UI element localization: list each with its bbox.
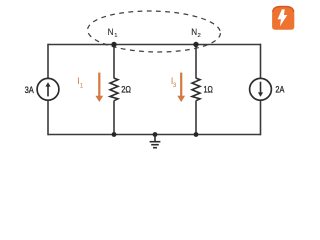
bottom junction dot right bbox=[194, 132, 199, 137]
svg-text:1: 1 bbox=[114, 33, 117, 39]
label I3 bbox=[171, 76, 177, 89]
current arrow I1 (orange) bbox=[95, 73, 103, 102]
svg-text:2: 2 bbox=[198, 33, 201, 39]
resistor R1 2ohm bbox=[110, 78, 118, 101]
app icon (orange badge with lightning bolt) top-right bbox=[272, 6, 294, 30]
node N1 dot bbox=[111, 42, 116, 47]
resistor R2 1ohm bbox=[192, 78, 200, 101]
wire left branch lower bbox=[47, 100, 49, 135]
bottom junction dot left bbox=[112, 132, 117, 137]
svg-text:N: N bbox=[108, 27, 114, 37]
svg-text:3: 3 bbox=[173, 82, 177, 89]
wire right branch upper bbox=[260, 44, 262, 79]
wire bottom horizontal bbox=[48, 134, 261, 136]
current source 2A (right) bbox=[250, 78, 272, 100]
node N2 dot bbox=[193, 42, 198, 47]
wire right branch lower bbox=[260, 100, 262, 135]
svg-text:1: 1 bbox=[80, 82, 84, 89]
wire branch N2 lower bbox=[195, 101, 197, 135]
supernode dashed ellipse around N1 and N2 bbox=[87, 9, 221, 53]
svg-text:N: N bbox=[191, 27, 197, 37]
wire branch N1 lower bbox=[113, 101, 115, 135]
svg-text:1Ω: 1Ω bbox=[204, 84, 214, 94]
ground bbox=[150, 135, 161, 148]
wire left branch upper bbox=[47, 44, 49, 79]
wire top horizontal bbox=[48, 44, 261, 46]
svg-text:2Ω: 2Ω bbox=[121, 84, 131, 94]
label I1 bbox=[77, 76, 83, 89]
node N1 label bbox=[108, 27, 118, 39]
svg-text:3A: 3A bbox=[25, 85, 35, 95]
wire branch N1 upper bbox=[113, 45, 115, 79]
current arrow I3 (orange) bbox=[177, 73, 185, 102]
wire branch N2 upper bbox=[195, 45, 197, 79]
svg-text:2A: 2A bbox=[275, 85, 285, 95]
node N2 label bbox=[191, 27, 201, 39]
bottom junction dot center (ground node) bbox=[153, 132, 158, 137]
current source 3A (left) bbox=[37, 78, 59, 100]
